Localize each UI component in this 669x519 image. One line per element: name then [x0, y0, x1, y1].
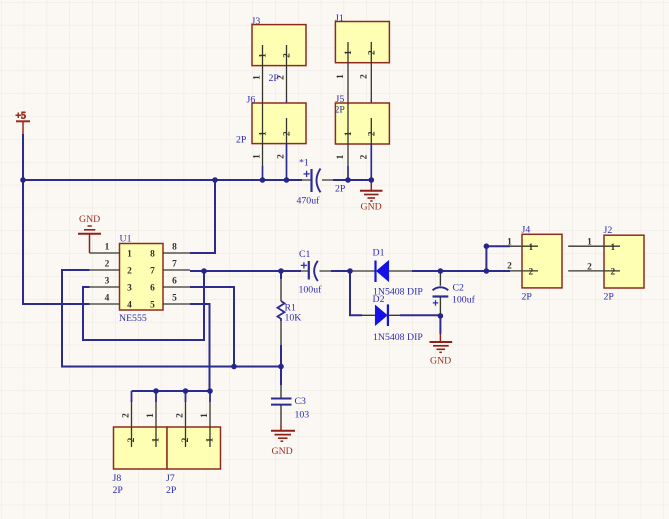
svg-text:2: 2	[283, 131, 293, 136]
svg-text:6: 6	[172, 277, 177, 287]
wire U1 pin 2 loop to lower rail	[62, 270, 281, 367]
node R1 top	[278, 268, 284, 274]
node pin7 pin3	[201, 268, 207, 274]
node D2 branch	[347, 268, 353, 274]
svg-text:10K: 10K	[285, 313, 302, 324]
wire J4 branch	[486, 237, 512, 271]
svg-text:2: 2	[507, 261, 512, 271]
node C2 bottom	[438, 313, 444, 319]
svg-text:2P: 2P	[335, 105, 346, 116]
svg-text:+5: +5	[16, 111, 27, 122]
svg-text:2P: 2P	[269, 73, 280, 84]
node rail pin8	[212, 177, 218, 183]
node bottom J7 pin1	[207, 388, 213, 394]
svg-text:5: 5	[150, 301, 155, 311]
svg-text:2P: 2P	[604, 291, 615, 302]
svg-text:2: 2	[277, 154, 287, 159]
svg-text:100uf: 100uf	[452, 295, 476, 306]
ground GND under C2	[430, 334, 453, 367]
svg-text:1: 1	[127, 250, 132, 260]
svg-text:1N5408 DIP: 1N5408 DIP	[373, 332, 423, 343]
node pin6 lower rail	[231, 364, 237, 370]
connector J1	[335, 13, 389, 63]
connector J3	[252, 16, 307, 66]
svg-text:GND: GND	[79, 214, 100, 225]
svg-text:J6: J6	[247, 94, 256, 105]
svg-text:J3: J3	[252, 16, 261, 27]
svg-text:2P: 2P	[522, 291, 533, 302]
svg-text:1: 1	[105, 243, 110, 253]
svg-text:1: 1	[259, 131, 269, 136]
svg-text:5: 5	[172, 294, 177, 304]
wire bottom header rail	[132, 390, 211, 392]
wire J3 to J6 pins	[253, 66, 287, 119]
connector J7	[166, 427, 221, 496]
svg-text:J8: J8	[113, 473, 122, 484]
svg-text:2: 2	[105, 260, 110, 270]
svg-text:C2: C2	[453, 283, 465, 294]
svg-text:1: 1	[146, 413, 156, 418]
resistor R1 10K	[278, 271, 302, 367]
op-amp U1 NE555	[90, 234, 191, 325]
svg-text:6: 6	[150, 284, 155, 294]
node rail J5 pin2 gnd	[369, 177, 375, 183]
svg-text:J2: J2	[604, 225, 613, 236]
connector J2	[568, 225, 644, 302]
svg-text:1: 1	[152, 437, 162, 442]
svg-text:8: 8	[172, 243, 177, 253]
wire J8 J7 pins to rail	[122, 391, 211, 427]
wire J6 to rail	[253, 144, 287, 180]
wire rail to U1 pin 8	[190, 180, 215, 253]
capacitor C1 100uf	[299, 249, 332, 296]
svg-text:7: 7	[172, 260, 177, 270]
connector J4	[510, 224, 562, 302]
connector J5	[335, 94, 390, 144]
svg-text:2: 2	[367, 131, 377, 136]
svg-text:GND: GND	[361, 202, 382, 213]
svg-text:2: 2	[529, 268, 534, 278]
svg-text:2: 2	[611, 268, 616, 278]
svg-text:103: 103	[295, 410, 310, 421]
wire U1 pin 6 drop	[190, 287, 234, 367]
wire D2 branch	[350, 271, 362, 315]
svg-text:1: 1	[253, 75, 263, 80]
svg-text:1: 1	[336, 74, 346, 79]
wire D2 to C2 node	[400, 314, 440, 316]
svg-text:1: 1	[206, 437, 216, 442]
node rail J6 pin1	[260, 177, 266, 183]
svg-text:2: 2	[181, 437, 191, 442]
svg-text:1: 1	[259, 53, 269, 58]
svg-text:2: 2	[176, 413, 186, 418]
svg-text:NE555: NE555	[119, 313, 147, 324]
node +5 rail	[20, 177, 26, 183]
capacitor C3 103	[271, 385, 309, 423]
svg-text:J7: J7	[166, 473, 175, 484]
svg-text:8: 8	[150, 250, 155, 260]
svg-text:2: 2	[367, 50, 377, 55]
svg-text:2: 2	[359, 74, 369, 79]
svg-text:1: 1	[611, 243, 616, 253]
node C2 top	[438, 268, 444, 274]
ground GND under C3	[271, 423, 295, 457]
svg-text:2: 2	[587, 262, 592, 272]
wire U1 pin 7 horizontal	[190, 270, 486, 272]
node J4 pin1	[484, 243, 490, 249]
svg-text:U1: U1	[120, 234, 132, 245]
svg-text:2P: 2P	[166, 485, 177, 496]
svg-text:1: 1	[200, 413, 210, 418]
svg-text:2: 2	[359, 154, 369, 159]
svg-text:2P: 2P	[335, 184, 346, 195]
connector J6	[236, 94, 306, 145]
svg-text:1: 1	[336, 154, 346, 159]
wire R1 bottom to C3	[280, 367, 282, 386]
svg-text:1: 1	[253, 154, 263, 159]
svg-text:4: 4	[127, 301, 132, 311]
svg-text:2P: 2P	[113, 485, 124, 496]
svg-text:7: 7	[150, 267, 155, 277]
svg-text:2: 2	[283, 53, 293, 58]
svg-text:3: 3	[127, 284, 132, 294]
svg-text:*1: *1	[299, 158, 309, 169]
ground GND under J5	[360, 180, 383, 213]
diode D2 1N5408	[362, 294, 423, 343]
svg-text:2: 2	[122, 413, 132, 418]
svg-text:GND: GND	[430, 356, 451, 367]
wire J5 to rail	[335, 144, 371, 195]
svg-text:2: 2	[127, 267, 132, 277]
capacitor *1 470uf	[297, 158, 334, 207]
wire J1 to J5 pins	[336, 63, 371, 118]
node bottom J8 pin1	[153, 388, 159, 394]
svg-text:2P: 2P	[236, 134, 247, 145]
wire +5 vertical rail to pin 4	[23, 134, 90, 304]
svg-text:J1: J1	[335, 13, 344, 24]
ground GND above U1 pin 1	[78, 214, 101, 253]
capacitor C2 100uf	[433, 271, 476, 314]
wire U1 pin 3 loop to pin 7 node	[83, 271, 204, 340]
svg-text:1: 1	[529, 243, 534, 253]
diode D1 1N5408	[352, 248, 423, 298]
node bottom J7 pin2	[183, 388, 189, 394]
node rail J5 pin1	[345, 177, 351, 183]
svg-text:J4: J4	[522, 224, 531, 235]
svg-text:1: 1	[344, 50, 354, 55]
svg-text:100uf: 100uf	[299, 285, 323, 296]
node rail J6 pin2	[284, 177, 290, 183]
wire U1 pin 5 drop to bottom	[190, 304, 210, 391]
svg-text:C3: C3	[295, 396, 307, 407]
svg-text:1: 1	[587, 237, 592, 247]
svg-text:3: 3	[105, 277, 110, 287]
svg-text:4: 4	[105, 294, 110, 304]
wire top rail y=180	[23, 179, 371, 181]
power symbol +5	[16, 111, 31, 135]
svg-text:C1: C1	[299, 249, 311, 260]
svg-text:J5: J5	[336, 94, 345, 105]
connector J8	[113, 427, 168, 496]
svg-text:GND: GND	[272, 446, 293, 457]
svg-text:2: 2	[127, 437, 137, 442]
svg-text:D1: D1	[373, 248, 385, 259]
wire C2 to ground	[439, 314, 441, 335]
svg-text:470uf: 470uf	[297, 196, 321, 207]
svg-text:1: 1	[344, 131, 354, 136]
node J4 branch	[484, 268, 490, 274]
node R1 bottom	[278, 364, 284, 370]
svg-text:D2: D2	[373, 294, 385, 305]
